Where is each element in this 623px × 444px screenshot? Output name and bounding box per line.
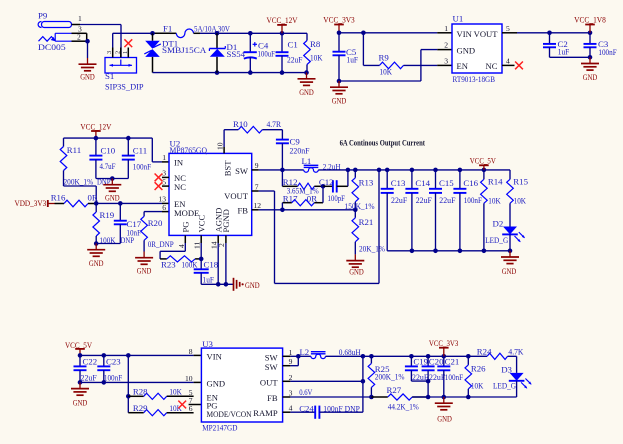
- svg-text:150K_1%: 150K_1%: [345, 201, 376, 211]
- capacitor C22 22uF: [74, 355, 98, 382]
- ground GND below C3: [581, 57, 599, 82]
- ground GND below R8: [298, 73, 316, 97]
- svg-text:MP8765GQ: MP8765GQ: [170, 146, 208, 155]
- capacitor C12 100pF: [319, 170, 348, 203]
- svg-text:GND: GND: [437, 413, 452, 423]
- wire U2 AGND down: [217, 235, 219, 284]
- junction C23 top: [102, 353, 107, 358]
- svg-text:MODE/VCON: MODE/VCON: [207, 409, 253, 419]
- svg-text:3: 3: [106, 51, 113, 54]
- pin stub U2 NC pin5: [162, 185, 169, 187]
- ground GND below R20: [135, 252, 153, 276]
- svg-text:3: 3: [444, 56, 448, 65]
- svg-text:C22: C22: [83, 356, 98, 366]
- pin name EN of U1: [457, 61, 469, 71]
- svg-text:C19: C19: [413, 356, 428, 366]
- pin name VOUT of U2: [224, 191, 249, 201]
- svg-text:200K_1%: 200K_1%: [64, 177, 94, 187]
- resistor R11 200K_1%: [60, 138, 94, 187]
- svg-text:LED_G: LED_G: [485, 235, 509, 245]
- svg-text:GND: GND: [349, 267, 364, 277]
- wire VCC_5V to U3 VIN: [80, 354, 201, 356]
- junction R23/C18/VCC node: [199, 257, 204, 262]
- svg-text:10K: 10K: [488, 196, 501, 206]
- junction C20 bottom: [426, 395, 431, 400]
- svg-text:9: 9: [289, 357, 293, 366]
- pin number 8 of U3: [189, 347, 193, 356]
- inductor L1 2.2uH: [302, 156, 342, 172]
- svg-text:P9: P9: [38, 11, 48, 21]
- svg-text:0.6V: 0.6V: [299, 387, 313, 397]
- svg-text:L1: L1: [302, 156, 312, 166]
- svg-text:GND: GND: [105, 193, 120, 203]
- svg-text:44.2K_1%: 44.2K_1%: [388, 402, 420, 412]
- wire L2 to output rail: [326, 355, 488, 357]
- junction R26 bottom: [466, 395, 471, 400]
- junction C22 top: [78, 353, 83, 358]
- junction VOUT loop top: [377, 168, 382, 173]
- svg-text:C15: C15: [439, 178, 454, 188]
- svg-text:22uF: 22uF: [391, 195, 407, 205]
- svg-text:OUT: OUT: [260, 377, 278, 387]
- junction P9 pin2 node: [85, 39, 90, 44]
- svg-text:EN: EN: [457, 61, 469, 71]
- svg-text:7: 7: [255, 182, 259, 191]
- pin stub U3 PG: [189, 404, 202, 406]
- wire U2 PGND down: [225, 235, 227, 284]
- pin number 2 of U1: [444, 41, 448, 50]
- junction SW tie: [296, 354, 301, 359]
- capacitor C3 100nF: [584, 33, 617, 58]
- pin number 10 of U2 (rotated): [216, 142, 225, 150]
- svg-text:5: 5: [506, 24, 510, 33]
- svg-text:VCC_1V8: VCC_1V8: [574, 16, 606, 25]
- svg-text:100nF: 100nF: [104, 372, 122, 382]
- junction C16 bottom: [458, 249, 463, 254]
- ground GND below C21: [435, 397, 453, 423]
- svg-text:R11: R11: [67, 145, 81, 155]
- pin name GND of U1: [457, 45, 476, 55]
- svg-text:R23: R23: [161, 259, 176, 269]
- svg-text:R27: R27: [387, 385, 402, 395]
- svg-text:1uF: 1uF: [203, 274, 215, 284]
- svg-text:C16: C16: [463, 178, 478, 188]
- junction C20 top: [426, 354, 431, 359]
- svg-text:U1: U1: [453, 14, 464, 24]
- svg-text:4.7K: 4.7K: [508, 347, 524, 357]
- svg-text:1: 1: [289, 348, 293, 357]
- bottom rail of output capacitors: [387, 250, 510, 252]
- svg-text:U3: U3: [202, 339, 213, 349]
- svg-text:3: 3: [289, 389, 293, 398]
- pin number 7 of U2: [255, 182, 259, 191]
- svg-text:8: 8: [189, 347, 193, 356]
- no-connect X on U2 pin5: [155, 182, 163, 190]
- svg-text:GND: GND: [137, 265, 152, 275]
- pin name VIN of U3: [207, 352, 223, 362]
- svg-text:1: 1: [122, 51, 129, 54]
- pin name FB of U2: [237, 206, 248, 216]
- svg-text:1: 1: [78, 14, 82, 23]
- wire R19 bottom to C17 bottom: [96, 243, 120, 245]
- junction R13 top: [353, 168, 358, 173]
- svg-text:R28: R28: [133, 386, 148, 396]
- pin number 2 of U2 (rotated): [217, 243, 226, 247]
- wire R9 to U1 EN: [404, 64, 453, 66]
- svg-text:C14: C14: [415, 178, 430, 188]
- junction R9 tap: [361, 31, 366, 36]
- junction R14 / VCC_5V: [482, 168, 487, 173]
- junction D2 bottom / ground tap: [508, 249, 513, 254]
- resistor R16 0R: [51, 193, 98, 207]
- svg-text:9: 9: [255, 161, 259, 170]
- svg-text:SS54: SS54: [227, 49, 246, 59]
- capacitor C2 1uF: [543, 33, 569, 58]
- svg-text:D3: D3: [501, 364, 512, 374]
- junction EN node R16/R11/R19: [94, 201, 99, 206]
- svg-text:F1: F1: [163, 23, 172, 33]
- no-connect X on U2 pin3: [155, 174, 163, 182]
- junction C4 bottom: [248, 70, 253, 75]
- junction C23 bottom: [102, 380, 107, 385]
- svg-text:20K_1%: 20K_1%: [359, 244, 386, 254]
- svg-text:22uF: 22uF: [412, 372, 428, 382]
- svg-text:100K: 100K: [182, 259, 199, 269]
- svg-text:0R: 0R: [307, 194, 317, 204]
- resistor R29 10K: [128, 403, 193, 416]
- svg-text:MP2147GD: MP2147GD: [202, 423, 237, 433]
- junction R25 top: [369, 354, 374, 359]
- svg-text:R8: R8: [310, 39, 321, 49]
- LED D3 LED_G: [493, 364, 532, 397]
- svg-text:100nF: 100nF: [445, 372, 463, 382]
- capacitor C15 22uF: [429, 170, 456, 251]
- junction C21 bottom / ground tap: [442, 395, 447, 400]
- wire R28/R29 vertical feed: [127, 355, 129, 412]
- junction C5 bottom: [337, 79, 342, 84]
- svg-text:22uF: 22uF: [81, 372, 97, 382]
- pin name SW of U2: [235, 166, 249, 176]
- power ground symbol (bar style) GND: [234, 278, 260, 291]
- svg-text:3: 3: [162, 169, 166, 178]
- resistor R23 100K: [161, 256, 201, 269]
- bottom ground row: [412, 396, 516, 398]
- svg-text:VCC_3V3: VCC_3V3: [323, 16, 355, 25]
- bottom rail of input section: [153, 72, 307, 74]
- svg-text:R24: R24: [477, 347, 492, 357]
- svg-text:R16: R16: [51, 193, 66, 203]
- svg-text:6A Continous Output Current: 6A Continous Output Current: [340, 138, 426, 147]
- svg-text:C20: C20: [429, 356, 444, 366]
- svg-text:100nF: 100nF: [464, 195, 482, 205]
- svg-text:RAMP: RAMP: [253, 408, 278, 418]
- TVS diode DT1 SMBJ15CA: [144, 33, 207, 72]
- wire U1 GND to ground rail: [339, 50, 452, 81]
- pin name NC of U2 pin3: [174, 173, 186, 183]
- pin number 13 of U2: [158, 195, 166, 204]
- wire L1 to VCC_5V output rail: [318, 169, 510, 171]
- wire BST to R10: [224, 130, 238, 154]
- capacitor C16 100nF: [453, 170, 482, 251]
- junction C14 top: [410, 168, 415, 173]
- svg-text:NC: NC: [174, 182, 186, 192]
- svg-text:C10: C10: [101, 145, 116, 155]
- svg-text:R10: R10: [233, 119, 248, 129]
- ground GND below D2: [501, 251, 519, 276]
- svg-text:C24: C24: [299, 404, 314, 414]
- junction OUT row: [361, 379, 366, 384]
- IC U2 MP8765GQ box: [169, 139, 252, 236]
- power VCC_3V3 (bottom): [429, 339, 459, 356]
- junction C19 top: [409, 354, 414, 359]
- svg-text:D2: D2: [493, 218, 504, 228]
- svg-text:1uF: 1uF: [347, 54, 359, 64]
- op-amp U1 RT9013-18GB regulator box: [452, 14, 502, 85]
- svg-text:VCC_12V: VCC_12V: [80, 122, 111, 131]
- junction C10 top: [94, 136, 99, 141]
- wire OUT net vertical: [362, 356, 364, 412]
- capacitor C5 1uF: [333, 33, 359, 81]
- fuse F1: [163, 23, 194, 37]
- pin name BST of U2 (rotated): [223, 160, 233, 177]
- resistor R9 10K: [379, 52, 404, 76]
- power VCC_5V (middle): [470, 156, 496, 170]
- analog ground rail: [201, 283, 233, 285]
- junction C1 / VCC_12V: [280, 31, 285, 36]
- svg-text:FB: FB: [237, 206, 248, 216]
- junction C14 bottom: [410, 249, 415, 254]
- svg-text:1: 1: [162, 153, 166, 162]
- pin stub U2 NC pin3: [162, 176, 169, 178]
- power port VDD_3V3: [15, 199, 55, 208]
- svg-text:FB: FB: [267, 393, 278, 403]
- wire P9 pin2 to ground: [87, 41, 89, 58]
- pin number 2 of U3: [289, 373, 293, 382]
- svg-text:SIP3S_DIP: SIP3S_DIP: [105, 82, 144, 92]
- pin name VIN of U1: [457, 29, 473, 39]
- wire U3 FB to R25 bottom: [283, 396, 372, 398]
- svg-text:GND: GND: [89, 258, 104, 268]
- junction C3 bottom: [588, 55, 593, 60]
- svg-text:2: 2: [114, 51, 121, 54]
- junction C15 bottom: [433, 249, 438, 254]
- wire C10 bottom to C11 bottom: [96, 178, 128, 180]
- junction D1 top: [215, 31, 220, 36]
- resistor R21 20K_1%: [352, 210, 386, 255]
- junction R19 bottom: [94, 241, 99, 246]
- pin name MODE/VCON of U3: [207, 409, 253, 419]
- wire VCC_3V3 to U1 VIN: [339, 32, 452, 34]
- svg-text:1: 1: [444, 24, 448, 33]
- svg-text:NC: NC: [486, 61, 498, 71]
- wire VCC_12V rail to U2 IN: [64, 138, 170, 162]
- wire SW to L2: [298, 355, 311, 357]
- LED D2 LED_G: [485, 218, 525, 251]
- svg-text:6: 6: [162, 203, 166, 212]
- junction FB / R25 / R27: [369, 395, 374, 400]
- pin number 1 of U1: [444, 24, 448, 33]
- pin number 11 of U2 (rotated): [193, 241, 202, 249]
- power VCC_12V (middle): [80, 122, 111, 138]
- pin name NC of U1: [486, 61, 498, 71]
- junction R12/C12/R17 node: [321, 184, 326, 189]
- svg-text:10: 10: [185, 374, 193, 383]
- wire SW pin to L1: [252, 169, 304, 171]
- pin name VOUT of U1: [474, 29, 499, 39]
- svg-text:C21: C21: [445, 356, 460, 366]
- ground GND at P9: [79, 58, 97, 82]
- svg-text:22uF: 22uF: [287, 55, 303, 65]
- svg-text:VDD_3V3: VDD_3V3: [15, 199, 47, 208]
- svg-text:R20: R20: [148, 218, 163, 228]
- svg-text:GND: GND: [73, 398, 88, 408]
- svg-text:100nF DNP: 100nF DNP: [323, 404, 360, 414]
- pin name AGND of U2 (rotated): [214, 208, 224, 233]
- wire U1 VOUT to VCC_1V8: [502, 32, 590, 34]
- pin number 10 of U3: [185, 374, 193, 383]
- net label 0.6V: [299, 387, 313, 397]
- svg-text:1uF: 1uF: [558, 47, 570, 57]
- capacitor C17 10nF: [114, 203, 142, 243]
- wire U3 SW pin9 tie: [283, 356, 299, 365]
- junction C15 top: [433, 168, 438, 173]
- svg-text:SW: SW: [265, 362, 279, 372]
- junction C19/C20 tie: [426, 379, 431, 384]
- svg-text:RT9013-18GB: RT9013-18GB: [453, 74, 496, 84]
- svg-text:4: 4: [177, 244, 186, 248]
- junction C1 bottom: [280, 70, 285, 75]
- svg-text:10K: 10K: [471, 381, 484, 391]
- svg-text:GND: GND: [502, 266, 517, 276]
- svg-text:R26: R26: [471, 364, 486, 374]
- resistor R19 100K DNP: [93, 203, 134, 244]
- wire C2 bottom to C3 bottom: [550, 56, 591, 58]
- svg-text:GND: GND: [457, 45, 476, 55]
- wire R20 top to U2 MODE: [144, 211, 169, 213]
- pin name MODE of U2: [174, 208, 199, 218]
- pin name EN of U3: [207, 392, 219, 402]
- wire P9 pin1 to S1 pin2: [72, 25, 122, 58]
- junction R14 bottom: [482, 249, 487, 254]
- inductor L2 0.68uH: [300, 347, 362, 359]
- svg-text:10K: 10K: [380, 66, 393, 76]
- svg-text:R21: R21: [359, 217, 374, 227]
- junction C13 top: [385, 168, 390, 173]
- wire EN node to U2 EN: [96, 202, 169, 204]
- svg-text:11: 11: [193, 241, 202, 249]
- wire U2 PG to R23: [160, 235, 185, 259]
- wire S1 pin3 to input rail: [112, 33, 114, 47]
- svg-text:VOUT: VOUT: [224, 191, 249, 201]
- capacitor C19 22uF: [405, 356, 429, 382]
- capacitor C24 100nF DNP (horizontal): [299, 404, 363, 419]
- resistor R17 0R: [282, 186, 323, 210]
- junction R26 top: [466, 354, 471, 359]
- pin number 5 of U2: [162, 177, 166, 186]
- resistor R28 10K: [128, 386, 193, 399]
- pin number 2 of P9: [77, 33, 81, 42]
- pin number 3 of U2: [162, 169, 166, 178]
- label 5A/10A 30V: [194, 23, 231, 33]
- svg-text:4: 4: [289, 403, 293, 412]
- capacitor C20 22uF: [422, 356, 446, 397]
- switch S1 SIP3S_DIP: [105, 48, 144, 92]
- svg-text:22uF: 22uF: [439, 195, 455, 205]
- svg-text:PG: PG: [180, 222, 190, 233]
- no-connect X on U3 PG: [178, 401, 186, 409]
- junction ground tap C10/C11: [110, 176, 115, 181]
- pin name FB of U3: [267, 393, 278, 403]
- svg-text:5: 5: [162, 177, 166, 186]
- capacitor C1 22uF: [276, 33, 303, 72]
- svg-text:R19: R19: [100, 210, 115, 220]
- svg-text:DC005: DC005: [38, 42, 66, 52]
- wire U3 SW pin1: [283, 355, 299, 357]
- ground GND below C5: [330, 81, 348, 106]
- pin number 1 of U2: [162, 153, 166, 162]
- resistor R15 10K: [507, 177, 529, 227]
- pin number 14 of U2 (rotated): [209, 241, 218, 249]
- svg-text:4.7R: 4.7R: [267, 119, 282, 129]
- wire R9 from VIN node: [363, 33, 379, 66]
- junction C16 top: [458, 168, 463, 173]
- pin name SW of U3 pin9: [265, 362, 279, 372]
- svg-text:IN: IN: [174, 158, 184, 168]
- svg-text:10K: 10K: [169, 386, 182, 396]
- pin number 5 of U3: [189, 388, 193, 397]
- wire output rail end to R15: [509, 170, 511, 179]
- svg-text:PGND: PGND: [221, 209, 231, 232]
- resistor R14 10K: [481, 170, 504, 252]
- svg-text:C18: C18: [204, 259, 219, 269]
- pin number 3 of S1: [106, 51, 113, 54]
- svg-text:GND: GND: [299, 87, 314, 97]
- pin number 1 of P9: [78, 14, 82, 23]
- junction R13/R21 node: [353, 208, 358, 213]
- svg-text:100nF: 100nF: [598, 47, 616, 57]
- svg-text:100pF: 100pF: [328, 193, 346, 203]
- connector P9 (DC005 barrel jack): [38, 11, 72, 52]
- svg-text:GND: GND: [245, 280, 260, 290]
- junction C12 right leg top: [346, 168, 351, 173]
- junction R8 bottom rail: [304, 70, 309, 75]
- pin stub U1 NC pin4: [502, 64, 515, 66]
- svg-text:SMBJ15CA: SMBJ15CA: [162, 45, 207, 55]
- capacitor C9 220nF: [276, 137, 310, 170]
- junction OUT vertical top: [361, 354, 366, 359]
- svg-text:C12: C12: [319, 177, 334, 187]
- svg-text:200K_1%: 200K_1%: [375, 372, 405, 382]
- pin name VCC of U2 (rotated): [197, 215, 207, 233]
- wire R10 to C9: [262, 130, 282, 140]
- wire ground rail to U3 GND: [80, 381, 201, 383]
- svg-text:VOUT: VOUT: [474, 29, 499, 39]
- capacitor C18 1uF: [194, 259, 219, 284]
- pin name EN of U2: [174, 199, 186, 209]
- wire U2 FB to divider: [252, 209, 356, 211]
- junction C11 top: [126, 136, 131, 141]
- power VCC_1V8: [574, 16, 606, 33]
- IC U3 MP2147GD box: [201, 339, 282, 433]
- wire F1 to VCC_12V rail: [194, 32, 308, 34]
- wire P9 pin3 to pin2 tie: [72, 33, 88, 41]
- svg-text:GND: GND: [80, 72, 95, 82]
- pin name PG of U2 (rotated): [180, 222, 190, 233]
- pin number 4 of U2 (rotated): [177, 244, 186, 248]
- svg-text:C11: C11: [133, 145, 147, 155]
- junction PGND pin: [224, 282, 229, 287]
- junction C21 / VCC_3V3: [442, 354, 447, 359]
